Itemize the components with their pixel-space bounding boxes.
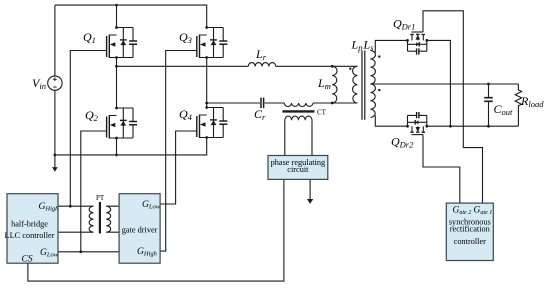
svg-text:LLC controller: LLC controller <box>5 231 55 240</box>
svg-text:CT: CT <box>317 109 327 117</box>
svg-text:half-bridge: half-bridge <box>11 220 48 229</box>
svg-text:gate driver: gate driver <box>122 226 158 235</box>
svg-text:CS: CS <box>22 255 33 265</box>
svg-text:circuit: circuit <box>287 165 309 174</box>
svg-text:rectification: rectification <box>450 225 491 234</box>
svg-text:controller: controller <box>454 237 486 246</box>
svg-text:PT: PT <box>96 194 105 202</box>
